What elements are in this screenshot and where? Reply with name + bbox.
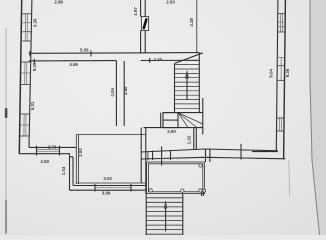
left scan edge line <box>5 28 7 235</box>
dimension tick on bottom wall <box>240 144 242 160</box>
porch corner columns <box>149 164 206 193</box>
lower-left wall: outer bottom line <box>19 153 70 155</box>
window W4 left wall <box>20 114 29 136</box>
interior wall H1 bottom line <box>29 60 117 62</box>
stair top diagonal <box>175 53 203 64</box>
window WB right wall <box>277 58 285 81</box>
window in lower-left wall <box>37 146 60 156</box>
veranda bottom edge <box>76 182 146 184</box>
lobby right wall pair <box>193 128 195 149</box>
right exterior wall outer line <box>284 0 286 159</box>
short verticals below porch right <box>201 191 203 196</box>
left scan blob <box>5 108 8 118</box>
bottom wall lower-left: inner line <box>73 185 146 187</box>
external stair treads <box>146 198 183 234</box>
window in bottom wall <box>95 184 131 192</box>
stair shaft right wall lines <box>198 53 200 113</box>
H1 junction tick at V1 <box>149 58 151 63</box>
bottom wall right section: outer line <box>141 157 285 159</box>
door jamb ticks <box>152 151 154 161</box>
right scan edge line <box>310 0 320 235</box>
interior wall V1 left line <box>115 61 117 126</box>
window WC right wall <box>277 118 285 131</box>
interior wall V1 right line <box>123 61 125 126</box>
porch inner rect <box>148 164 202 192</box>
subtle scan mottling <box>0 0 1 1</box>
external stair arrow <box>164 200 168 232</box>
veranda left edge pair <box>75 135 77 185</box>
door leaf line above porch <box>161 147 163 166</box>
stair treads <box>174 65 199 109</box>
faint line below right corner <box>288 160 291 196</box>
window WA right wall <box>278 14 286 32</box>
door symbol in V2 wall <box>141 17 148 31</box>
lower-left wall: inner top line <box>29 146 76 148</box>
H1 left end ticks <box>29 51 31 56</box>
landing left extra line <box>160 113 162 128</box>
bottom wall lower-left: outer line <box>70 189 147 191</box>
window W2 left wall <box>22 33 31 41</box>
lower-left vertical wall pair <box>69 154 71 191</box>
porch outer rect <box>147 162 205 194</box>
stair winder top line <box>163 112 203 114</box>
bottom-right corner extra inner line <box>252 151 278 153</box>
stair upper flight left edge <box>174 64 176 113</box>
winder fan lines <box>178 113 203 128</box>
right exterior wall inner line <box>276 0 278 151</box>
small jog connecting <box>70 156 73 158</box>
stair bottom line <box>144 127 203 129</box>
stair down arrow <box>185 70 189 101</box>
veranda thin rect top edge <box>76 134 146 136</box>
left exterior wall outer line <box>19 0 21 154</box>
stair landing rect <box>163 113 178 128</box>
window W1 left wall <box>22 14 31 32</box>
landing mid line <box>163 119 178 121</box>
thin partition P1 <box>196 0 198 53</box>
dimension labels <box>30 0 290 195</box>
window W3 left wall <box>21 62 30 85</box>
bottom wall right section: inner line <box>141 149 278 152</box>
interior wall H1 top line <box>29 52 200 55</box>
right scan band <box>310 0 326 235</box>
porch to wall connector pair <box>205 149 207 162</box>
interior wall V2 lower segment below door <box>141 31 146 54</box>
lobby/veranda right wall pair <box>140 128 142 183</box>
external stair rails <box>145 194 147 235</box>
left exterior wall inner line <box>29 0 32 147</box>
interior wall V2 upper segment above door <box>141 0 146 17</box>
